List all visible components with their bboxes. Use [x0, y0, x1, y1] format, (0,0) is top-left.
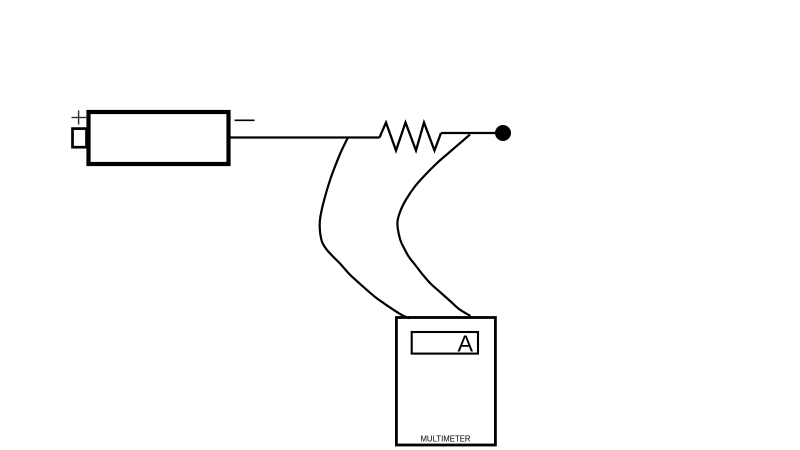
- wire resistor to node: [441, 132, 502, 134]
- svg-text:A: A: [458, 331, 474, 357]
- svg-text:MULTIMETER: MULTIMETER: [420, 434, 470, 443]
- battery minus label: [235, 119, 255, 121]
- resistor R1: [380, 123, 442, 151]
- multimeter display window: [412, 332, 478, 354]
- multimeter M1 body: [396, 318, 495, 446]
- battery B1 positive terminal tab: [73, 129, 87, 148]
- wire left lead to multimeter: [320, 138, 409, 318]
- battery B1 body: [89, 112, 229, 164]
- wire battery to resistor: [230, 136, 380, 138]
- node terminal dot: [495, 125, 511, 141]
- wire right lead to multimeter: [397, 135, 470, 317]
- battery plus label: [72, 110, 87, 124]
